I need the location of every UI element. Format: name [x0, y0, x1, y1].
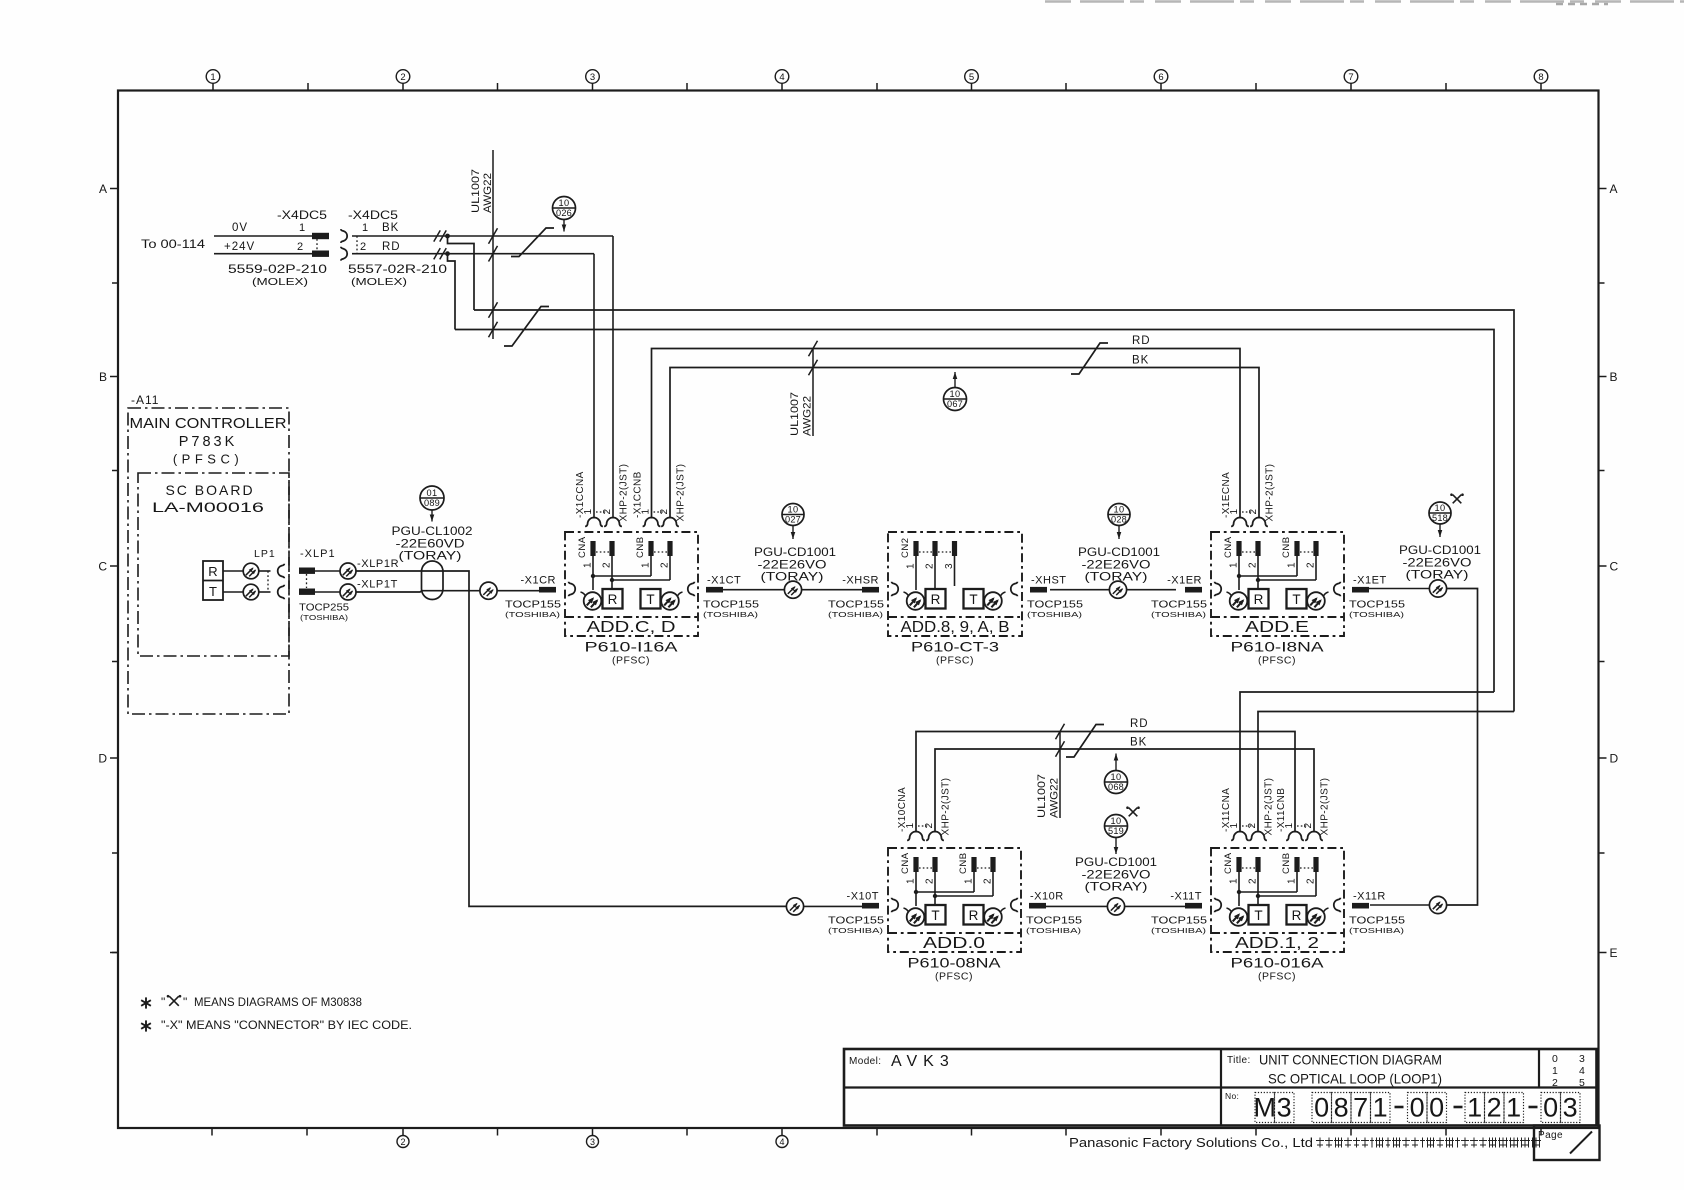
- svg-text:AWG22: AWG22: [482, 173, 494, 213]
- svg-text:1: 1: [1229, 878, 1240, 884]
- cable marker UL1007 AWG22 (center): [812, 349, 814, 437]
- bottom border tick: [781, 1128, 783, 1136]
- left border row letter B: [110, 376, 118, 378]
- svg-text:2: 2: [1487, 1093, 1502, 1123]
- bottom border tick: [686, 1128, 688, 1136]
- fiber adapter circle XLP1R: [340, 563, 356, 579]
- left border tick E row: [112, 952, 118, 954]
- svg-text:6: 6: [1158, 72, 1163, 83]
- svg-text:10: 10: [949, 389, 960, 399]
- svg-text:5559-02P-210: 5559-02P-210: [228, 264, 327, 276]
- right border tick: [1599, 661, 1605, 663]
- CN2 pin legs: [915, 556, 917, 590]
- svg-text:XHP-2(JST): XHP-2(JST): [1264, 778, 1275, 836]
- svg-text:5: 5: [1579, 1077, 1585, 1089]
- svg-text:TOCP155: TOCP155: [1026, 915, 1082, 927]
- svg-text:2: 2: [297, 241, 303, 253]
- svg-text:(TOSHIBA): (TOSHIBA): [703, 610, 759, 619]
- svg-text:2: 2: [983, 878, 994, 884]
- connector contact 2: [604, 518, 622, 527]
- border frame: [118, 91, 1599, 1129]
- svg-text:4: 4: [779, 1137, 784, 1147]
- svg-text:TOCP155: TOCP155: [828, 915, 884, 927]
- svg-text:ADD.8, 9, A, B: ADD.8, 9, A, B: [901, 619, 1010, 636]
- svg-text:2: 2: [400, 72, 405, 83]
- wire RD from -X4DC5: [352, 253, 594, 255]
- svg-text:-A11: -A11: [131, 393, 159, 407]
- svg-text:1: 1: [1467, 1093, 1482, 1123]
- svg-text:3: 3: [590, 1137, 595, 1147]
- connector contact 1: [1286, 832, 1304, 841]
- svg-text:To 00-114: To 00-114: [141, 239, 206, 251]
- optical port circle (R line): [243, 563, 259, 579]
- svg-text:TOCP155: TOCP155: [505, 599, 561, 611]
- wire RD branch to right loop bus: [448, 254, 456, 330]
- svg-text:10: 10: [1110, 816, 1121, 826]
- reference bubble 10/068: [1105, 771, 1128, 794]
- svg-text:SC BOARD: SC BOARD: [165, 482, 254, 498]
- svg-text:T: T: [1254, 908, 1262, 923]
- svg-text:(TORAY): (TORAY): [1406, 568, 1469, 582]
- fiber adapter circle XLP1T: [340, 584, 356, 600]
- top border index circle 8: [1540, 83, 1542, 91]
- svg-text:XHP-2(JST): XHP-2(JST): [619, 464, 630, 522]
- svg-text:P610-CT-3: P610-CT-3: [911, 639, 999, 655]
- svg-text:XHP-2(JST): XHP-2(JST): [676, 464, 687, 522]
- wire BK link CNB2 to ADD.E CNA2 y367: [670, 368, 1259, 519]
- svg-text:(TORAY): (TORAY): [1085, 880, 1148, 894]
- module ADD.0 box: [888, 848, 1021, 952]
- svg-text:R: R: [931, 592, 941, 607]
- dotted pair link: [918, 825, 929, 827]
- svg-text:2: 2: [1248, 562, 1259, 568]
- svg-text:(TOSHIBA): (TOSHIBA): [1349, 610, 1405, 619]
- fiber wire -X10R to -X11T: [1046, 905, 1108, 907]
- svg-text:(TOSHIBA): (TOSHIBA): [300, 613, 349, 622]
- dotted pair link: [1242, 511, 1253, 513]
- svg-text:LA-M00016: LA-M00016: [152, 499, 264, 515]
- wire RD link CNB1 to ADD.E CNA1 y349: [652, 349, 1241, 519]
- top border index circle 6: [1160, 83, 1162, 91]
- left border row letter C: [110, 565, 118, 567]
- svg-text:TOCP155: TOCP155: [1349, 599, 1405, 611]
- svg-text:MAIN CONTROLLER: MAIN CONTROLLER: [130, 416, 287, 432]
- svg-text:1: 1: [906, 563, 917, 569]
- internal cross-connect wires: [592, 556, 594, 590]
- svg-text:T: T: [209, 584, 217, 599]
- svg-text:3: 3: [590, 72, 595, 83]
- svg-text:Model:: Model:: [849, 1056, 881, 1067]
- bottom border tick: [1540, 1128, 1542, 1136]
- reference bubble 10/027: [782, 504, 804, 526]
- bottom border tick: [1065, 1128, 1067, 1136]
- right border tick: [1599, 852, 1605, 854]
- optical receiver/transmitter T right: [641, 589, 661, 609]
- fiber adapter circle (X1CT-XHSR): [784, 581, 801, 598]
- optical receiver R left: [892, 582, 899, 597]
- wire 0V: [214, 235, 312, 237]
- svg-text:P610-I8NA: P610-I8NA: [1231, 639, 1325, 655]
- svg-text:(PFSC): (PFSC): [1258, 655, 1296, 667]
- right border tick: [1599, 470, 1605, 472]
- cable bundle slash (RD/BK link): [1071, 343, 1108, 374]
- svg-text:ADD.E: ADD.E: [1245, 619, 1309, 636]
- svg-text:(TOSHIBA): (TOSHIBA): [828, 926, 884, 935]
- svg-text:(PFSC): (PFSC): [173, 452, 243, 467]
- top border index circle 7: [1350, 83, 1352, 91]
- drawing number M3 0871-00-121-03: [1255, 1093, 1275, 1123]
- svg-text:(TORAY): (TORAY): [1085, 570, 1148, 584]
- page box: [1534, 1126, 1600, 1161]
- bottom border tick: [1445, 1128, 1447, 1136]
- svg-text:": ": [161, 995, 165, 1009]
- reference bubble 10/518 (see M30838): [1429, 502, 1451, 524]
- controller R/T port box: [203, 561, 223, 600]
- svg-text:UL1007: UL1007: [470, 169, 482, 213]
- svg-text:2: 2: [1552, 1077, 1558, 1089]
- svg-text:CNA: CNA: [1223, 852, 1234, 874]
- svg-text:1: 1: [210, 72, 215, 83]
- svg-text:(TOSHIBA): (TOSHIBA): [1027, 610, 1083, 619]
- svg-text:BK: BK: [1132, 355, 1149, 367]
- reference bubble 10/519 (see M30838): [1105, 815, 1128, 838]
- svg-text:2: 2: [659, 509, 670, 515]
- svg-text:TOCP155: TOCP155: [1349, 915, 1405, 927]
- note: means diagrams of M30838: [145, 997, 147, 1008]
- svg-text:1: 1: [1287, 878, 1298, 884]
- reference bubble 01/089: [420, 486, 444, 510]
- connector contact 2: [926, 832, 944, 841]
- svg-text:P610-08NA: P610-08NA: [908, 955, 1002, 971]
- svg-text:7: 7: [1353, 1093, 1368, 1123]
- top border tick: [1255, 83, 1257, 91]
- svg-text:026: 026: [556, 208, 572, 218]
- bus BK horizontal y310: [474, 310, 1514, 712]
- footer japanese company name (vector strokes): [1316, 1140, 1324, 1142]
- wire XLP1T to adapter: [315, 591, 340, 593]
- svg-text:(MOLEX): (MOLEX): [351, 276, 407, 288]
- svg-text:P610-016A: P610-016A: [1231, 955, 1325, 971]
- connector contact 1: [1231, 518, 1249, 527]
- wire BK branch to right loop bus: [448, 236, 475, 310]
- connector contact 2: [1249, 832, 1267, 841]
- svg-text:XHP-2(JST): XHP-2(JST): [1320, 778, 1331, 836]
- optical receiver/transmitter T left: [892, 898, 899, 913]
- dotted pair link: [596, 511, 607, 513]
- svg-text:2: 2: [1306, 878, 1317, 884]
- svg-text:BK: BK: [382, 222, 399, 234]
- svg-text:CN2: CN2: [900, 537, 911, 558]
- svg-text:3: 3: [1579, 1053, 1585, 1065]
- svg-text:2: 2: [1248, 878, 1259, 884]
- optical port circle (T line): [243, 584, 259, 600]
- svg-text:0: 0: [1543, 1093, 1558, 1123]
- SC BOARD LA-M00016 inner box: [138, 473, 289, 656]
- svg-text:-X10CNA: -X10CNA: [897, 787, 908, 832]
- svg-text:ADD.1, 2: ADD.1, 2: [1235, 935, 1319, 952]
- optical transmitter T right: [964, 589, 984, 609]
- reference bubble 10/067: [944, 388, 967, 411]
- svg-text:(TORAY): (TORAY): [399, 549, 462, 563]
- svg-text:": ": [183, 995, 187, 1009]
- svg-text:2: 2: [925, 563, 936, 569]
- bottom border tick: [971, 1128, 973, 1136]
- svg-text:TOCP155: TOCP155: [703, 599, 759, 611]
- svg-text:CNA: CNA: [577, 536, 588, 558]
- connector contact 1: [1231, 832, 1249, 841]
- optical receiver/transmitter R left: [1215, 582, 1222, 597]
- svg-text:-X1CCNA: -X1CCNA: [575, 471, 586, 518]
- svg-text:No:: No:: [1225, 1091, 1239, 1101]
- bus RD horizontal y329: [455, 330, 1494, 693]
- top border tick: [686, 83, 688, 91]
- right border row letter A: [1599, 188, 1607, 190]
- optical receiver/transmitter T right: [1287, 589, 1307, 609]
- svg-text:028: 028: [1111, 515, 1127, 525]
- title block frame: [844, 1049, 1597, 1126]
- svg-text:518: 518: [1432, 513, 1448, 523]
- svg-text:XHP-2(JST): XHP-2(JST): [941, 778, 952, 836]
- svg-text:CNA: CNA: [900, 852, 911, 874]
- fiber wire -X11R to loop: [1370, 904, 1430, 906]
- svg-text:-XLP1: -XLP1: [300, 548, 336, 560]
- fiber loop wire X1ET to X11R: [1447, 589, 1478, 906]
- svg-text:"-X" MEANS "CONNECTOR" BY: "-X" MEANS "CONNECTOR" BY IEC CODE.: [161, 1018, 412, 1032]
- svg-text:0: 0: [1552, 1053, 1558, 1065]
- wire T to LP1: [223, 591, 244, 593]
- svg-text:2: 2: [925, 878, 936, 884]
- svg-text:(TOSHIBA): (TOSHIBA): [1026, 926, 1082, 935]
- dotted pair link: [654, 511, 665, 513]
- right border row letter B: [1599, 376, 1607, 378]
- top border index circle 1: [212, 83, 214, 91]
- connector contact 1: [643, 518, 661, 527]
- svg-text:+24V: +24V: [224, 241, 255, 253]
- svg-text:Title:: Title:: [1227, 1055, 1251, 1066]
- svg-text:3: 3: [1277, 1093, 1292, 1123]
- left border row letter A: [110, 188, 118, 190]
- right border row letter E: [1599, 952, 1607, 954]
- svg-text:TOCP155: TOCP155: [1027, 599, 1083, 611]
- fiber adapter circle (X1ET): [1429, 580, 1446, 597]
- svg-text:AWG22: AWG22: [1049, 778, 1061, 818]
- svg-text:(TOSHIBA): (TOSHIBA): [828, 610, 884, 619]
- optical receiver/transmitter R right: [1287, 905, 1307, 925]
- svg-text:A: A: [1610, 182, 1618, 196]
- module ADD.C, D box: [565, 532, 698, 636]
- svg-text:SC OPTICAL LOOP (LOOP1): SC OPTICAL LOOP (LOOP1): [1268, 1071, 1442, 1087]
- svg-text:-XLP1R: -XLP1R: [357, 558, 399, 570]
- cable marker UL1007 AWG22 (bottom): [1059, 732, 1061, 819]
- cable sleeve PGU-CL1002 oval: [422, 561, 444, 600]
- left border row letter D: [110, 757, 118, 759]
- fiber wire -X1ET to adapter: [1369, 588, 1430, 590]
- wire XLP1R to adapter: [315, 570, 340, 572]
- right border row letter D: [1599, 757, 1607, 759]
- svg-text:C: C: [98, 560, 107, 574]
- reference bubble 10/026: [553, 197, 576, 220]
- svg-text:3: 3: [944, 563, 955, 569]
- svg-text:TOCP155: TOCP155: [1151, 915, 1207, 927]
- svg-text:BK: BK: [1130, 737, 1147, 749]
- svg-text:(PFSC): (PFSC): [1258, 971, 1296, 983]
- svg-text:(TOSHIBA): (TOSHIBA): [1151, 610, 1207, 619]
- bottom border tick: [497, 1128, 499, 1136]
- svg-text:R: R: [1292, 908, 1302, 923]
- svg-text:10: 10: [1113, 504, 1124, 514]
- svg-text:C: C: [1610, 560, 1619, 574]
- svg-text:2: 2: [400, 1137, 405, 1147]
- svg-text:-XLP1T: -XLP1T: [357, 579, 398, 591]
- svg-text:2: 2: [1247, 823, 1258, 829]
- svg-text:RD: RD: [1130, 718, 1149, 730]
- connector contact 1: [585, 518, 603, 527]
- svg-text:ADD.0: ADD.0: [923, 935, 986, 952]
- cable bundle slash (power wires): [511, 228, 554, 257]
- svg-text:B: B: [1610, 370, 1618, 384]
- optical receiver/transmitter R left: [569, 582, 576, 597]
- bottom border tick: [1350, 1128, 1352, 1136]
- svg-text:CNB: CNB: [1281, 536, 1292, 558]
- left border tick: [112, 282, 118, 284]
- bottom border index circle 3: [587, 1136, 599, 1148]
- bottom border tick: [306, 1128, 308, 1136]
- svg-text:-X10R: -X10R: [1030, 891, 1064, 903]
- svg-text:-X1ET: -X1ET: [1353, 575, 1387, 587]
- top border tick: [307, 83, 309, 91]
- svg-text:4: 4: [1579, 1065, 1585, 1077]
- connector contact 2: [1305, 832, 1323, 841]
- svg-text:D: D: [98, 752, 107, 766]
- svg-text:UL1007: UL1007: [789, 392, 801, 436]
- svg-text:1: 1: [583, 562, 594, 568]
- svg-text:CNB: CNB: [1281, 852, 1292, 874]
- LP1 socket arcs: [267, 571, 269, 592]
- svg-text:CNB: CNB: [958, 852, 969, 874]
- bottom border tick: [211, 1128, 213, 1136]
- svg-text:-X1CCNB: -X1CCNB: [633, 471, 644, 518]
- module ADD.E box: [1211, 532, 1344, 636]
- svg-text:-X1CT: -X1CT: [707, 575, 741, 587]
- svg-text:R: R: [608, 592, 618, 607]
- svg-text:1: 1: [1287, 562, 1298, 568]
- svg-text:01: 01: [426, 488, 437, 498]
- top border index circle 3: [592, 83, 594, 91]
- svg-text:2: 2: [360, 241, 366, 253]
- svg-text:M: M: [1253, 1093, 1276, 1123]
- svg-text:10: 10: [558, 198, 569, 208]
- svg-text:R: R: [208, 564, 217, 579]
- svg-text:-X11T: -X11T: [1170, 891, 1202, 903]
- top border tick: [876, 83, 878, 91]
- svg-text:3: 3: [1563, 1093, 1578, 1123]
- svg-text:0: 0: [1429, 1093, 1444, 1123]
- svg-text:T: T: [931, 908, 939, 923]
- top border index circle 2: [402, 83, 404, 91]
- svg-text:-X4DC5: -X4DC5: [348, 210, 398, 222]
- connector contact 2: [661, 518, 679, 527]
- svg-text:8: 8: [1334, 1093, 1349, 1123]
- svg-text:10: 10: [1434, 503, 1445, 513]
- fiber adapter circle (X11R): [1429, 896, 1446, 913]
- svg-text:-XHST: -XHST: [1031, 575, 1067, 587]
- top border index circle 5: [971, 83, 973, 91]
- svg-text:1: 1: [1552, 1065, 1558, 1077]
- bus RD lower return y692: [1240, 692, 1494, 833]
- fiber adapter circle before -X1CR: [480, 582, 497, 599]
- svg-text:(MOLEX): (MOLEX): [252, 276, 308, 288]
- svg-text:1: 1: [964, 878, 975, 884]
- svg-text:R: R: [1254, 592, 1264, 607]
- svg-text:1: 1: [906, 878, 917, 884]
- svg-text:-XHSR: -XHSR: [842, 575, 879, 587]
- wire +24V: [214, 253, 312, 255]
- svg-text:-X1ER: -X1ER: [1167, 575, 1202, 587]
- cable bundle slash (loop buses): [504, 307, 549, 347]
- internal cross-connect wires: [915, 872, 917, 906]
- svg-text:089: 089: [424, 498, 440, 508]
- svg-text:B: B: [99, 370, 107, 384]
- bottom border tick: [592, 1128, 594, 1136]
- svg-text:067: 067: [947, 399, 963, 409]
- right border tick: [1599, 282, 1605, 284]
- left border row tick E: [110, 952, 118, 954]
- bottom border index circle 4: [776, 1136, 788, 1148]
- svg-text:Page: Page: [1538, 1130, 1563, 1141]
- connector contact 1: [907, 832, 925, 841]
- note: -X means connector by IEC code: [145, 1020, 147, 1031]
- svg-text:UL1007: UL1007: [1036, 774, 1048, 818]
- fiber wire -X1CT to adapter 10/027: [723, 589, 785, 591]
- svg-text:-X1ECNA: -X1ECNA: [1221, 472, 1232, 518]
- svg-text:-X11CNA: -X11CNA: [1221, 788, 1232, 832]
- cable bundle slash (bottom RD/BK): [1066, 725, 1104, 758]
- svg-text:MEANS DIAGRAMS OF M30838: MEANS DIAGRAMS OF M30838: [194, 995, 362, 1009]
- svg-text:T: T: [1292, 592, 1300, 607]
- wire RD drop to ADD.C,D CNA pin1: [593, 254, 595, 519]
- internal cross-connect wires: [1238, 556, 1240, 590]
- svg-text:068: 068: [1108, 782, 1124, 792]
- fiber adapter circle (XHST-X1ER): [1109, 581, 1126, 598]
- svg-text:1: 1: [299, 222, 305, 234]
- svg-text:P783K: P783K: [179, 434, 238, 450]
- svg-text:TOCP155: TOCP155: [1151, 599, 1207, 611]
- svg-text:D: D: [1610, 752, 1619, 766]
- svg-text:XHP-2(JST): XHP-2(JST): [1265, 464, 1276, 522]
- svg-text:UNIT CONNECTION DIAGRAM: UNIT CONNECTION DIAGRAM: [1259, 1052, 1442, 1068]
- fiber -XLP1R long wire to bottom loop: [356, 571, 787, 906]
- svg-text:2: 2: [660, 562, 671, 568]
- svg-text:CNB: CNB: [635, 536, 646, 558]
- wire BK link ADD.0 CNA2 to ADD.1,2 CNB2 y749: [935, 749, 1314, 833]
- svg-text:-X11CNB: -X11CNB: [1276, 788, 1287, 832]
- svg-text:T: T: [969, 592, 977, 607]
- svg-text:1: 1: [1373, 1093, 1388, 1123]
- right border row letter C: [1599, 565, 1607, 567]
- svg-text:(TORAY): (TORAY): [761, 570, 824, 584]
- fiber -XLP1T wire to -X1CR: [356, 591, 480, 592]
- top border index circle 4: [781, 83, 783, 91]
- top border tick: [497, 83, 499, 91]
- module ADD.1, 2 box: [1211, 848, 1344, 952]
- bottom border tick: [1255, 1128, 1257, 1136]
- svg-text:CNA: CNA: [1223, 536, 1234, 558]
- fiber adapter circle (X10R-X11T): [1107, 898, 1124, 915]
- svg-text:-X11R: -X11R: [1353, 891, 1386, 903]
- svg-text:(PFSC): (PFSC): [935, 971, 973, 983]
- svg-text:-X10T: -X10T: [847, 891, 879, 903]
- svg-text:1: 1: [641, 562, 652, 568]
